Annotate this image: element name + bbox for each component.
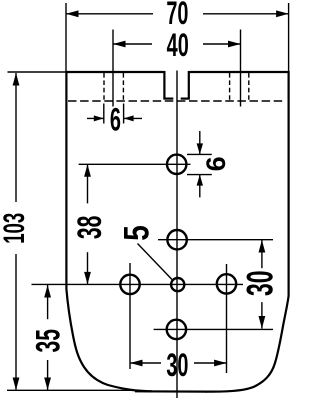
svg-text:38: 38 xyxy=(70,216,108,239)
svg-text:30: 30 xyxy=(239,271,281,297)
svg-text:30: 30 xyxy=(166,347,188,383)
svg-text:103: 103 xyxy=(0,213,31,244)
svg-text:6: 6 xyxy=(201,156,231,171)
svg-text:40: 40 xyxy=(167,27,189,63)
svg-text:5: 5 xyxy=(117,225,157,241)
svg-text:6: 6 xyxy=(110,102,121,138)
svg-text:35: 35 xyxy=(28,329,66,352)
